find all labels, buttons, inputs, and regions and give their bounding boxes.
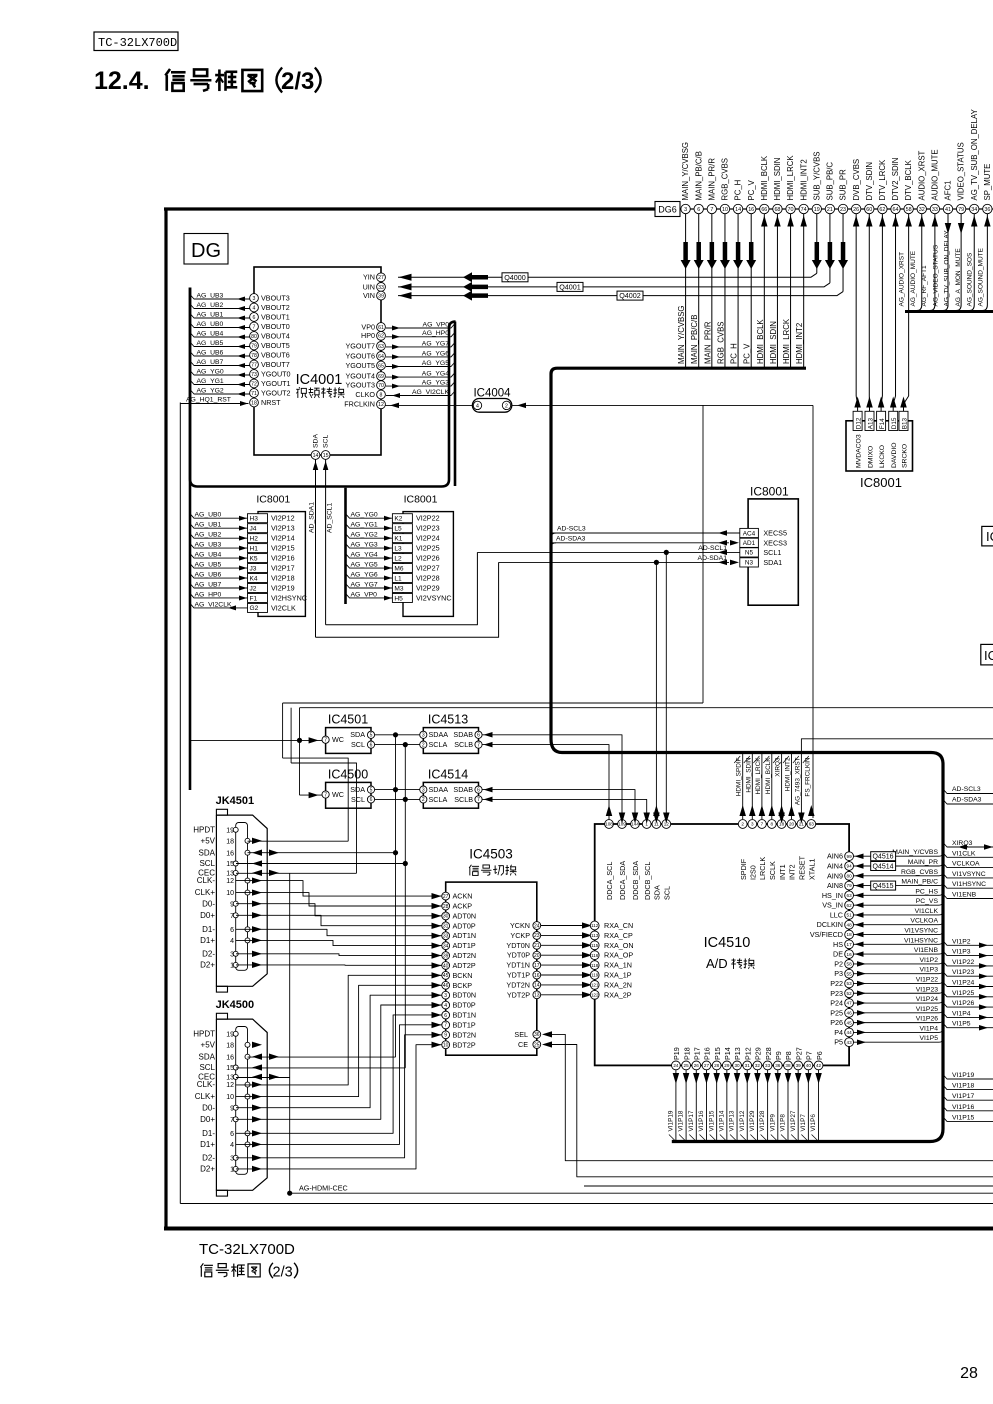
svg-text:6: 6 bbox=[370, 797, 373, 803]
svg-text:VI2VSYNC: VI2VSYNC bbox=[416, 593, 452, 602]
svg-text:7: 7 bbox=[324, 792, 327, 798]
wire AD_SDA1 routing U bbox=[316, 562, 499, 637]
IC4513 pin 3 SDAA bbox=[420, 731, 427, 738]
IC4001 pin 80 VBOUT4 net AG_UB4 bbox=[190, 333, 250, 338]
svg-text:SDA: SDA bbox=[653, 885, 662, 900]
svg-text:VCLKOA: VCLKOA bbox=[952, 861, 980, 868]
wire JK4501 CEC bbox=[236, 872, 357, 874]
net flag VI1P5 right bbox=[943, 1023, 993, 1027]
svg-text:D0-: D0- bbox=[202, 1103, 215, 1112]
wire JK4500 TMDS pair bbox=[236, 975, 443, 1085]
svg-text:VI2P29: VI2P29 bbox=[416, 583, 440, 592]
svg-text:VI2P18: VI2P18 bbox=[271, 574, 295, 583]
arrow into IC4001 Q4000 row bbox=[463, 272, 488, 282]
svg-text:SCL: SCL bbox=[351, 740, 365, 749]
svg-text:MAIN_Y/CVBS: MAIN_Y/CVBS bbox=[892, 849, 938, 856]
wire aux bottom bbox=[583, 1177, 585, 1186]
svg-text:RXA_CP: RXA_CP bbox=[604, 931, 633, 940]
svg-text:3: 3 bbox=[751, 822, 754, 827]
svg-text:ADT2N: ADT2N bbox=[453, 951, 477, 960]
IC IC4514 body bbox=[423, 782, 478, 808]
svg-text:36: 36 bbox=[534, 1032, 540, 1038]
svg-text:2/3: 2/3 bbox=[281, 68, 314, 95]
svg-text:27: 27 bbox=[378, 275, 384, 281]
svg-text:CLK-: CLK- bbox=[197, 876, 216, 885]
svg-text:AD-SDA3: AD-SDA3 bbox=[556, 535, 586, 542]
wire AG_HQ1_RST bottom horizontal bbox=[180, 1203, 993, 1205]
svg-text:SCL1: SCL1 bbox=[763, 548, 781, 557]
svg-text:19: 19 bbox=[814, 207, 820, 213]
svg-text:PC_H: PC_H bbox=[730, 343, 739, 364]
svg-text:80: 80 bbox=[251, 334, 257, 340]
wire net MAIN_Y/CVBS to IC4510 bbox=[854, 855, 940, 857]
svg-text:DVB_CVBS: DVB_CVBS bbox=[852, 159, 861, 201]
svg-text:72: 72 bbox=[251, 381, 257, 387]
IC8001 DAC pin B13 SRCKO bbox=[899, 411, 908, 430]
DG block label bbox=[184, 234, 228, 265]
svg-text:AUDIO_MUTE: AUDIO_MUTE bbox=[930, 149, 939, 200]
svg-text:2: 2 bbox=[422, 797, 425, 803]
wire AG_TV_SUB_ON_DELAY to AG bus bbox=[973, 214, 975, 305]
svg-text:YDT0P: YDT0P bbox=[507, 951, 530, 960]
IC4510 pin 119 RXA_1P bbox=[590, 971, 599, 980]
svg-text:J2: J2 bbox=[250, 585, 257, 592]
svg-text:SEL: SEL bbox=[514, 1030, 528, 1039]
svg-text:ADT2P: ADT2P bbox=[453, 961, 476, 970]
wire JK4500 SCL to I2C bus bbox=[236, 1067, 405, 1069]
wire PC_V down to video bus bbox=[750, 214, 752, 367]
wire MAIN_PR/R down to video bus bbox=[711, 214, 713, 367]
wire HDMI_LRCK to bus bbox=[790, 214, 792, 367]
wire net PC_HS to IC4510 bbox=[854, 894, 940, 896]
wire JK4501 TMDS pair bbox=[236, 881, 443, 897]
svg-text:P4: P4 bbox=[834, 1028, 843, 1037]
svg-text:MAIN_Y/CVBSG: MAIN_Y/CVBSG bbox=[681, 142, 690, 201]
svg-text:AG_YG4: AG_YG4 bbox=[351, 551, 378, 558]
svg-text:VI1CLK: VI1CLK bbox=[952, 850, 976, 857]
svg-text:PC_H: PC_H bbox=[734, 180, 743, 201]
svg-text:AG_AUDIO_XRST: AG_AUDIO_XRST bbox=[899, 252, 906, 307]
svg-text:IC4514: IC4514 bbox=[428, 767, 468, 781]
svg-text:79: 79 bbox=[958, 207, 964, 213]
svg-text:38: 38 bbox=[785, 1063, 791, 1068]
svg-text:10: 10 bbox=[722, 207, 728, 213]
wire JK4500 TMDS pair bbox=[236, 985, 443, 1096]
IC label box right edge B bbox=[981, 644, 993, 665]
wire YCKP to IC4510 bbox=[541, 934, 590, 936]
svg-text:AD-SDA1: AD-SDA1 bbox=[698, 555, 728, 562]
wire YDT1P to IC4510 bbox=[541, 974, 590, 976]
wire JK4501 SCL to I2C bus bbox=[236, 863, 405, 865]
svg-text:DG: DG bbox=[191, 240, 221, 262]
svg-text:31: 31 bbox=[745, 1063, 751, 1068]
svg-text:61: 61 bbox=[378, 325, 384, 331]
svg-text:62: 62 bbox=[378, 334, 384, 340]
svg-text:52: 52 bbox=[847, 991, 853, 996]
wire MAIN_PB/C/B down to video bus bbox=[698, 214, 700, 367]
svg-text:YGOUT2: YGOUT2 bbox=[261, 388, 291, 397]
svg-text:HDMI_INT2: HDMI_INT2 bbox=[795, 323, 804, 364]
svg-text:AD-SCL3: AD-SCL3 bbox=[952, 786, 981, 793]
svg-text:HDMI_LRCK: HDMI_LRCK bbox=[782, 318, 791, 364]
svg-text:RXA_OP: RXA_OP bbox=[604, 951, 633, 960]
svg-text:AIN4: AIN4 bbox=[827, 861, 843, 870]
svg-text:12: 12 bbox=[226, 1082, 234, 1089]
wire net MAIN_PR to IC4510 bbox=[854, 865, 940, 867]
svg-text:D1+: D1+ bbox=[200, 1140, 215, 1149]
svg-text:H5: H5 bbox=[394, 595, 403, 602]
IC8001 pin AD1 XECS3 bbox=[740, 538, 759, 547]
wire YCKN to IC4510 bbox=[541, 925, 590, 927]
svg-text:VI2HSYNC: VI2HSYNC bbox=[271, 593, 307, 602]
svg-text:AG_UB5: AG_UB5 bbox=[195, 561, 222, 568]
wire AD_SDA1 from IC4001 pin14 bbox=[313, 461, 319, 470]
svg-text:46: 46 bbox=[443, 983, 449, 989]
op-amp IC4001 video converter block bbox=[254, 267, 381, 455]
wire JK4501 TMDS pair bbox=[236, 954, 443, 956]
svg-text:YGOUT3: YGOUT3 bbox=[345, 381, 375, 390]
svg-text:118: 118 bbox=[591, 963, 599, 968]
svg-text:SCLA: SCLA bbox=[429, 795, 448, 804]
svg-text:SCL: SCL bbox=[351, 795, 365, 804]
svg-text:4: 4 bbox=[253, 305, 256, 311]
svg-text:BDT2N: BDT2N bbox=[453, 1030, 477, 1039]
svg-text:YDT1P: YDT1P bbox=[507, 971, 530, 980]
net flag VI1P3 right bbox=[943, 951, 993, 956]
svg-text:AD_SDA1: AD_SDA1 bbox=[309, 502, 316, 533]
wire AG_7493_XRST to IC4510 RESET bbox=[801, 739, 993, 815]
svg-text:20: 20 bbox=[534, 953, 540, 959]
svg-text:60: 60 bbox=[866, 207, 872, 213]
svg-text:AG_HQ1_RST: AG_HQ1_RST bbox=[186, 396, 231, 403]
svg-text:39: 39 bbox=[378, 293, 384, 299]
svg-text:VI1P15: VI1P15 bbox=[952, 1114, 975, 1121]
svg-text:VI1P29: VI1P29 bbox=[749, 1110, 756, 1131]
net flag AD-SDA3 right bbox=[943, 800, 993, 805]
svg-text:7: 7 bbox=[444, 1023, 447, 1029]
svg-text:RXA_ON: RXA_ON bbox=[604, 941, 634, 950]
svg-text:HDMI_SDIN: HDMI_SDIN bbox=[745, 757, 752, 793]
wire SEL bbox=[552, 1034, 993, 1160]
transistor Q4516 bbox=[871, 852, 896, 861]
wire JK4501 TMDS pair bbox=[236, 893, 443, 906]
svg-text:DG6: DG6 bbox=[658, 205, 677, 215]
svg-text:IC8001: IC8001 bbox=[256, 494, 290, 506]
svg-text:65: 65 bbox=[378, 363, 384, 369]
svg-text:I2S0: I2S0 bbox=[749, 865, 758, 880]
wire net VI1P2 to IC4510 bbox=[854, 963, 940, 965]
svg-text:M3: M3 bbox=[394, 585, 403, 592]
IC4510 pin 12 SCL bbox=[662, 820, 671, 829]
svg-text:XECS3: XECS3 bbox=[763, 538, 787, 547]
IC8001-A pin G2 VI2CLK net AG_VI2CLK bbox=[248, 603, 268, 612]
svg-text:66: 66 bbox=[761, 207, 767, 213]
svg-text:16: 16 bbox=[226, 1054, 234, 1061]
svg-text:AG_YG0: AG_YG0 bbox=[351, 512, 378, 519]
svg-text:VBOUT7: VBOUT7 bbox=[261, 360, 290, 369]
IC8001-B pin K2 VI2P22 net AG_YG0 bbox=[392, 514, 412, 523]
svg-text:AG_YG7: AG_YG7 bbox=[422, 340, 449, 347]
IC4514 pin 2 SCLA bbox=[420, 796, 427, 803]
svg-text:SP_MUTE: SP_MUTE bbox=[983, 164, 992, 201]
svg-text:27: 27 bbox=[704, 1063, 710, 1068]
svg-text:PC_V: PC_V bbox=[743, 343, 752, 364]
arrow into IC4001 Q4002 row bbox=[463, 291, 488, 301]
wire AD-SDA3 bbox=[551, 542, 729, 544]
IC4503 pin 9 BDT2N bbox=[432, 1032, 442, 1038]
svg-text:SCL: SCL bbox=[199, 859, 215, 868]
wire net VI1P23 to IC4510 bbox=[854, 992, 940, 994]
IC8001-B pin M3 VI2P29 net AG_YG7 bbox=[392, 583, 412, 592]
svg-text:RXA_2P: RXA_2P bbox=[604, 990, 632, 999]
svg-text:VI1P4: VI1P4 bbox=[952, 1010, 971, 1017]
svg-text:SDAB: SDAB bbox=[453, 785, 473, 794]
IC4001 pin 4 VBOUT2 net AG_UB2 bbox=[190, 304, 250, 309]
svg-text:VI1P7: VI1P7 bbox=[800, 1114, 807, 1132]
IC8001-A pin K5 VI2P16 net AG_UB4 bbox=[248, 554, 268, 563]
IC IC4501 body bbox=[326, 728, 371, 754]
svg-text:P27: P27 bbox=[794, 1047, 803, 1060]
IC8001-A pin F1 VI2HSYNC net AG_HP0 bbox=[248, 593, 268, 602]
wire AD-SDA1 bbox=[499, 561, 729, 563]
IC8001-A pin J4 VI2P13 net AG_UB1 bbox=[248, 524, 268, 533]
net flag VI1P19 right bbox=[943, 1075, 993, 1080]
svg-text:AG_UB1: AG_UB1 bbox=[195, 522, 222, 529]
svg-text:28: 28 bbox=[714, 1063, 720, 1068]
node junction AD-SCL1 bbox=[664, 550, 669, 555]
svg-text:VI1P16: VI1P16 bbox=[952, 1104, 975, 1111]
svg-text:P22: P22 bbox=[830, 979, 843, 988]
svg-text:VI1HSYNC: VI1HSYNC bbox=[952, 881, 986, 888]
svg-text:64: 64 bbox=[378, 354, 384, 360]
wire SUB_PR to Q4002 bbox=[842, 214, 844, 292]
wire FS_FRCLKIN vertical to IC4510 XTAL1 bbox=[812, 405, 814, 818]
svg-text:AG_YG5: AG_YG5 bbox=[422, 360, 449, 367]
IC4503 pin 7 BDT1P bbox=[432, 1022, 442, 1028]
svg-text:39: 39 bbox=[443, 953, 449, 959]
IC4503 pin 3 BDT0N bbox=[432, 992, 442, 998]
svg-text:HDMI_BCLK: HDMI_BCLK bbox=[765, 757, 772, 794]
IC8001 pin AC4 XECS5 bbox=[740, 528, 759, 537]
IC8001-B pin H5 VI2VSYNC net AG_VP0 bbox=[392, 593, 412, 602]
svg-text:P8: P8 bbox=[784, 1051, 793, 1060]
svg-text:VI1P17: VI1P17 bbox=[688, 1110, 695, 1131]
svg-text:F14: F14 bbox=[879, 418, 886, 429]
net flag VI1P23 right bbox=[943, 972, 993, 977]
svg-text:DCLKIN: DCLKIN bbox=[817, 920, 843, 929]
IC4001 pin 73 YGOUT0 net AG_YG0 bbox=[190, 371, 250, 376]
svg-text:VI1P15: VI1P15 bbox=[708, 1110, 715, 1131]
svg-text:32: 32 bbox=[755, 1063, 761, 1068]
IC4510 A/D converter block bbox=[595, 824, 849, 1065]
wire FRCLKIN net bbox=[386, 404, 474, 406]
svg-text:D2-: D2- bbox=[202, 1153, 215, 1162]
svg-text:P9: P9 bbox=[774, 1051, 783, 1060]
svg-text:31: 31 bbox=[443, 924, 449, 930]
net flag VI1P25 right bbox=[943, 992, 993, 997]
wire SDA to IC4510 bbox=[655, 562, 657, 820]
svg-text:19: 19 bbox=[226, 1031, 234, 1038]
svg-text:SDA: SDA bbox=[350, 730, 365, 739]
IC4503 pin 30 ADT0N bbox=[432, 913, 442, 919]
svg-text:VI1P22: VI1P22 bbox=[916, 976, 939, 983]
IC4513 pin 2 SCLA bbox=[420, 741, 427, 748]
wire SDA IC4500 to IC4514 bbox=[375, 789, 420, 791]
model label box TC-32LX700D bbox=[94, 32, 178, 51]
svg-text:DTV_SDIN: DTV_SDIN bbox=[865, 162, 874, 201]
svg-text:70: 70 bbox=[378, 383, 384, 389]
svg-text:43: 43 bbox=[847, 1040, 853, 1045]
IC4501 pin 7 WC bbox=[322, 736, 329, 743]
svg-text:VI1P14: VI1P14 bbox=[718, 1110, 725, 1131]
svg-text:INT1: INT1 bbox=[778, 864, 787, 880]
svg-text:16: 16 bbox=[847, 952, 853, 957]
IC4510 pin 112 RXA_CN bbox=[590, 921, 599, 930]
IC8001-B pin L2 VI2P26 net AG_YG4 bbox=[392, 554, 412, 563]
svg-text:ADT1P: ADT1P bbox=[453, 941, 476, 950]
svg-text:33: 33 bbox=[378, 285, 384, 291]
svg-text:NRST: NRST bbox=[261, 398, 281, 407]
bus AG left vertical bbox=[189, 288, 192, 791]
svg-text:JK4500: JK4500 bbox=[216, 999, 255, 1011]
IC4510 pin 18 INT1 net XIRQ3 bbox=[781, 754, 783, 819]
svg-text:VI1P23: VI1P23 bbox=[952, 969, 975, 976]
svg-text:SDA: SDA bbox=[313, 434, 320, 448]
wire net VI1P25 to IC4510 bbox=[854, 1012, 940, 1014]
wire HDMI_BCLK to bus bbox=[763, 214, 765, 367]
wire SDAB IC4514 to DDCB_SDA bbox=[482, 790, 635, 820]
svg-text:68: 68 bbox=[774, 207, 780, 213]
wire WC vertical bbox=[299, 708, 301, 795]
svg-text:VI2P26: VI2P26 bbox=[416, 554, 440, 563]
wire JK4500 TMDS pair bbox=[236, 995, 443, 1107]
svg-text:VI1P16: VI1P16 bbox=[698, 1110, 705, 1131]
svg-text:36: 36 bbox=[984, 207, 990, 213]
svg-text:15: 15 bbox=[226, 861, 234, 868]
IC8001-A pin H2 VI2P14 net AG_UB2 bbox=[248, 534, 268, 543]
svg-text:3: 3 bbox=[422, 733, 425, 739]
IC4503 pin 33 ADT1N bbox=[432, 933, 442, 939]
svg-text:AG_YG3: AG_YG3 bbox=[351, 542, 378, 549]
svg-text:SCLA: SCLA bbox=[429, 740, 448, 749]
wire net VI1P3 to IC4510 bbox=[854, 973, 940, 975]
svg-text:YDT2N: YDT2N bbox=[506, 980, 530, 989]
svg-text:28: 28 bbox=[960, 1365, 978, 1382]
svg-text:40: 40 bbox=[443, 963, 449, 969]
svg-text:7: 7 bbox=[253, 324, 256, 330]
wire net VI1ENB to IC4510 bbox=[854, 953, 940, 955]
svg-text:SDA: SDA bbox=[199, 848, 216, 857]
svg-text:JK4501: JK4501 bbox=[216, 795, 255, 807]
svg-text:MAIN_PB/C/B: MAIN_PB/C/B bbox=[694, 151, 703, 200]
svg-text:MAIN_PB/C: MAIN_PB/C bbox=[901, 879, 938, 886]
svg-text:IC4510: IC4510 bbox=[704, 935, 751, 951]
svg-text:SCLK: SCLK bbox=[768, 861, 777, 880]
svg-text:AG_UB4: AG_UB4 bbox=[197, 330, 224, 337]
IC4510 pin 7 LRCLK net HDMI_LRCK bbox=[761, 754, 763, 819]
svg-text:63: 63 bbox=[847, 893, 853, 898]
svg-text:IC4004: IC4004 bbox=[473, 388, 511, 400]
svg-text:7: 7 bbox=[324, 738, 327, 744]
svg-text:AG_UB2: AG_UB2 bbox=[195, 532, 222, 539]
IC4510 pin 108 DDCA_SCL bbox=[605, 820, 614, 829]
svg-text:BDT2P: BDT2P bbox=[453, 1040, 476, 1049]
node SDA bus junction IC4500 bbox=[393, 787, 398, 792]
svg-text:DDCB_SDA: DDCB_SDA bbox=[631, 861, 640, 900]
wire JK4500 SDA to I2C bus bbox=[248, 1056, 396, 1058]
svg-text:DDCA_SCL: DDCA_SCL bbox=[605, 862, 614, 900]
svg-text:HP0: HP0 bbox=[361, 331, 375, 340]
svg-text:P17: P17 bbox=[692, 1047, 701, 1060]
wire JK4501 TMDS pair bbox=[236, 964, 443, 966]
svg-text:VI2P27: VI2P27 bbox=[416, 564, 440, 573]
svg-text:Q4514: Q4514 bbox=[872, 863, 893, 870]
svg-text:YDT1N: YDT1N bbox=[506, 961, 530, 970]
svg-text:115: 115 bbox=[591, 943, 599, 948]
svg-text:12: 12 bbox=[378, 402, 384, 408]
svg-text:AG_VI2CLK: AG_VI2CLK bbox=[412, 389, 449, 396]
wire WC IC4500 bbox=[300, 794, 323, 796]
wire HDMI_INT2 to bus bbox=[803, 214, 805, 367]
svg-text:VI2P23: VI2P23 bbox=[416, 524, 440, 533]
wire SDAB IC4513 to DDCA_SDA bbox=[482, 735, 622, 820]
node SCL bus junction IC4500 bbox=[403, 797, 408, 802]
svg-text:VBOUT4: VBOUT4 bbox=[261, 331, 290, 340]
svg-text:YGOUT1: YGOUT1 bbox=[261, 379, 291, 388]
IC4510 pin 109 DDCA_SDA bbox=[618, 820, 627, 829]
svg-text:CLK+: CLK+ bbox=[195, 1092, 216, 1101]
IC label box right edge A bbox=[982, 526, 993, 546]
svg-text:18: 18 bbox=[847, 932, 853, 937]
svg-text:12.4.: 12.4. bbox=[94, 67, 150, 95]
svg-text:34: 34 bbox=[443, 943, 449, 949]
svg-text:L3: L3 bbox=[394, 545, 402, 552]
svg-text:3: 3 bbox=[253, 296, 256, 302]
wire JK4500 TMDS pair bbox=[236, 1005, 443, 1119]
svg-text:23: 23 bbox=[534, 933, 540, 939]
svg-text:44: 44 bbox=[847, 1030, 853, 1035]
svg-text:VI2P14: VI2P14 bbox=[271, 534, 295, 543]
svg-text:P23: P23 bbox=[830, 989, 843, 998]
svg-text:80: 80 bbox=[847, 873, 853, 878]
svg-text:24: 24 bbox=[673, 1063, 679, 1068]
svg-text:51: 51 bbox=[847, 913, 853, 918]
svg-text:YGOUT0: YGOUT0 bbox=[261, 369, 291, 378]
svg-text:VI1P13: VI1P13 bbox=[729, 1110, 736, 1131]
IC4500 pin 7 WC bbox=[322, 791, 329, 798]
svg-text:IC4501: IC4501 bbox=[328, 713, 368, 727]
svg-text:P12: P12 bbox=[743, 1047, 752, 1060]
IC4503 pin 46 BCKP bbox=[432, 982, 442, 988]
svg-text:6: 6 bbox=[253, 315, 256, 321]
svg-text:CE: CE bbox=[518, 1040, 528, 1049]
net flag VI1P2 right bbox=[943, 941, 993, 946]
svg-text:63: 63 bbox=[378, 344, 384, 350]
svg-text:VI2P16: VI2P16 bbox=[271, 554, 295, 563]
svg-text:INT2: INT2 bbox=[788, 864, 797, 880]
svg-text:MAIN_PR/R: MAIN_PR/R bbox=[703, 321, 712, 364]
svg-text:IC4503: IC4503 bbox=[469, 847, 513, 862]
svg-text:SDA1: SDA1 bbox=[763, 558, 782, 567]
svg-text:ADT0N: ADT0N bbox=[453, 911, 477, 920]
svg-text:ADT1N: ADT1N bbox=[453, 931, 477, 940]
svg-text:YGOUT4: YGOUT4 bbox=[345, 372, 375, 381]
svg-text:YCKP: YCKP bbox=[510, 931, 530, 940]
IC4510 pin 116 RXA_OP bbox=[590, 951, 599, 960]
svg-text:VI1P27: VI1P27 bbox=[790, 1110, 797, 1131]
svg-text:10: 10 bbox=[226, 1094, 234, 1101]
svg-text:VI2P13: VI2P13 bbox=[271, 524, 295, 533]
